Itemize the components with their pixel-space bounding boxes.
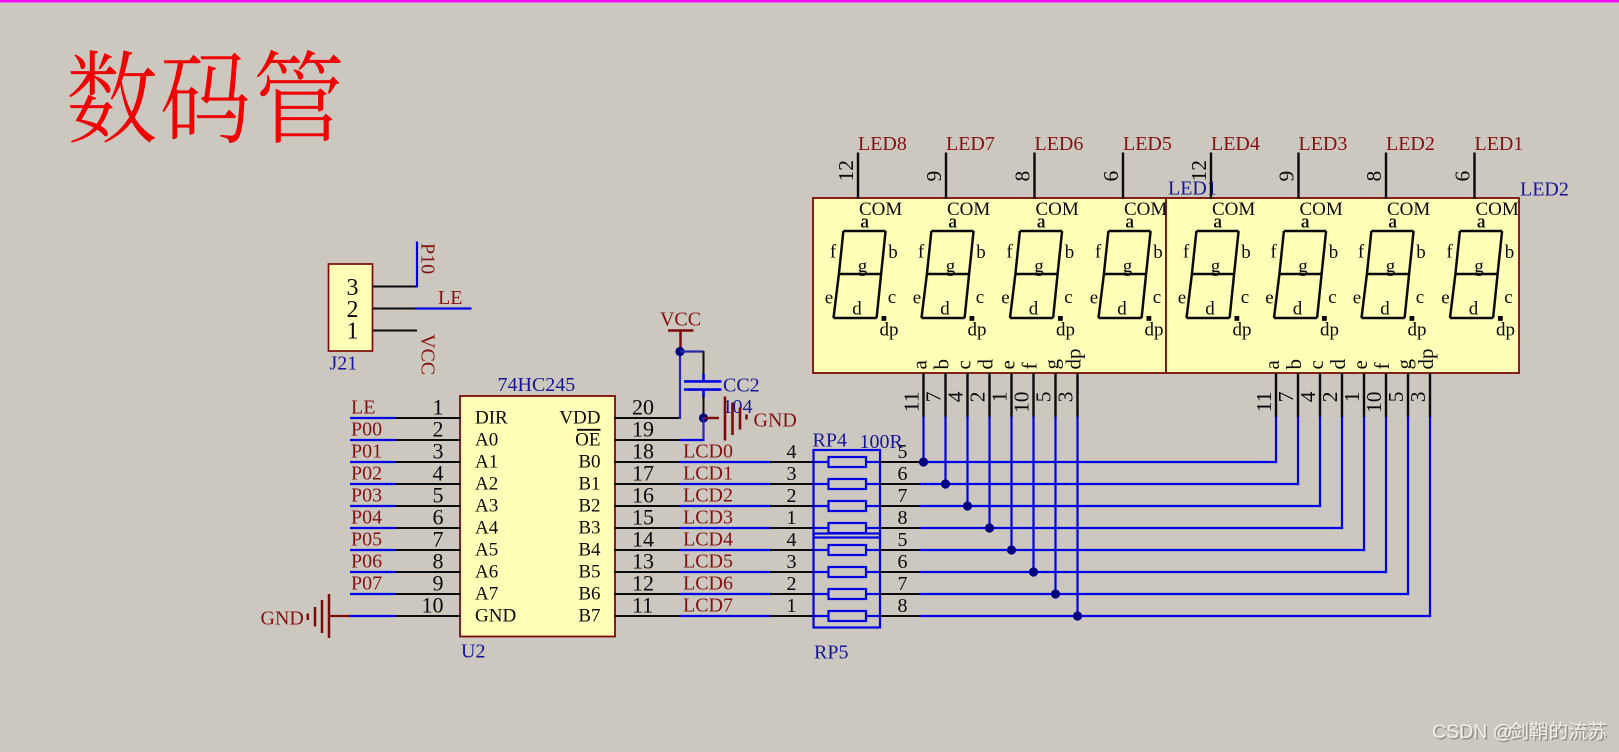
seven-segment digit 2 of LED2 — [1274, 231, 1326, 318]
wire net P03 — [350, 505, 395, 507]
resistor element 1 in RP4 — [814, 457, 881, 467]
wire COM pin LED8 — [857, 153, 859, 200]
svg-text:J21: J21 — [330, 353, 358, 375]
svg-text:d: d — [1029, 299, 1039, 320]
svg-text:f: f — [1370, 363, 1394, 370]
wire junction to ground symbol — [704, 417, 720, 419]
svg-text:OE: OE — [575, 430, 600, 451]
seven-segment digit 3 of LED2 — [1362, 231, 1414, 318]
LED2 segment pin d lead — [1341, 373, 1343, 418]
wire segment row 3 to LED modules — [920, 505, 1321, 507]
wire VCC junction to capacitor — [680, 350, 704, 352]
IC U2 74HC245 body — [460, 396, 615, 637]
svg-text:LCD3: LCD3 — [683, 506, 733, 528]
title text 数码管 (red) — [69, 50, 340, 143]
svg-text:a: a — [860, 212, 869, 233]
svg-text:LCD2: LCD2 — [683, 484, 733, 506]
U2 pin 11 lead (right) — [614, 615, 680, 617]
resistor pack pin lead right row 6 — [879, 571, 921, 573]
svg-text:a: a — [1213, 212, 1222, 233]
U2 pin 2 lead (left) — [394, 439, 461, 441]
connector J21 body — [329, 264, 373, 351]
wire capacitor bottom lead — [703, 396, 705, 414]
U2 pin 16 lead (right) — [614, 505, 680, 507]
resistor pack pin lead left row 4 — [770, 527, 814, 529]
svg-text:g: g — [1040, 359, 1064, 370]
wire net LCD7 — [679, 615, 771, 617]
svg-text:c: c — [1064, 287, 1072, 308]
U2 pin 12 lead (right) — [614, 593, 680, 595]
svg-text:c: c — [952, 360, 976, 369]
LED2 segment pin a lead — [1275, 373, 1277, 418]
svg-text:2: 2 — [966, 392, 990, 403]
svg-text:a: a — [1037, 212, 1046, 233]
svg-text:c: c — [1153, 287, 1161, 308]
svg-text:4: 4 — [787, 529, 797, 551]
svg-text:1: 1 — [787, 595, 797, 617]
wire net LCD2 — [679, 505, 771, 507]
svg-text:B7: B7 — [578, 606, 600, 627]
svg-text:P04: P04 — [351, 507, 382, 529]
svg-text:LED4: LED4 — [1211, 133, 1260, 155]
svg-text:4: 4 — [787, 441, 797, 463]
svg-text:10: 10 — [422, 593, 444, 618]
wire segment row 7 to LED modules — [920, 593, 1409, 595]
svg-text:12: 12 — [1187, 160, 1211, 182]
svg-text:P03: P03 — [351, 485, 382, 507]
svg-text:A0: A0 — [475, 430, 498, 451]
svg-text:b: b — [976, 242, 986, 263]
svg-text:a: a — [1125, 212, 1134, 233]
wire net LCD1 — [679, 483, 771, 485]
svg-text:10: 10 — [1362, 392, 1386, 414]
U2 pin 5 lead (left) — [394, 505, 461, 507]
svg-text:11: 11 — [1252, 392, 1276, 413]
svg-text:RP4: RP4 — [813, 430, 847, 452]
svg-text:7: 7 — [898, 573, 908, 595]
U2 pin 8 lead (left) — [394, 571, 461, 573]
svg-text:b: b — [888, 242, 898, 263]
svg-text:f: f — [1270, 242, 1277, 263]
LED2 segment pin e lead — [1363, 373, 1365, 418]
resistor pack RP4 body — [814, 450, 881, 538]
svg-text:d: d — [852, 299, 862, 320]
wire LED1 e vertical — [1010, 417, 1012, 551]
svg-text:g: g — [946, 256, 956, 277]
svg-text:B6: B6 — [578, 584, 600, 605]
svg-text:e: e — [1178, 288, 1186, 309]
wire net LCD0 — [679, 461, 771, 463]
wire LED2 g vertical — [1407, 417, 1409, 596]
svg-text:LED1: LED1 — [1475, 133, 1524, 155]
U2 pin 4 lead (left) — [394, 483, 461, 485]
resistor pack pin lead right row 3 — [879, 505, 921, 507]
wire LED2 c vertical — [1319, 417, 1321, 508]
svg-text:f: f — [830, 242, 837, 263]
U2 pin 19 lead (right) — [614, 439, 680, 441]
svg-text:6: 6 — [898, 551, 908, 573]
wire LED1 f vertical — [1032, 417, 1034, 573]
svg-text:dp: dp — [1408, 320, 1427, 341]
svg-text:B4: B4 — [578, 540, 601, 561]
svg-text:LCD0: LCD0 — [683, 440, 733, 462]
svg-text:104: 104 — [723, 396, 753, 418]
wire net P06 — [350, 571, 395, 573]
seven-segment digit 3 of LED1 — [1010, 231, 1062, 318]
svg-text:LED5: LED5 — [1123, 133, 1172, 155]
svg-text:5: 5 — [898, 441, 908, 463]
wire OE to ground junction horizontal — [679, 439, 705, 441]
wire at U2 pin 10 — [350, 615, 395, 617]
svg-text:g: g — [1211, 256, 1221, 277]
svg-text:g: g — [1123, 256, 1133, 277]
node junction row 4 — [985, 523, 994, 532]
svg-text:e: e — [1348, 360, 1372, 369]
svg-text:DIR: DIR — [475, 408, 508, 429]
svg-text:e: e — [1001, 288, 1009, 309]
wire LED1 g vertical — [1054, 417, 1056, 595]
svg-text:A2: A2 — [475, 474, 498, 495]
svg-text:c: c — [1241, 287, 1249, 308]
resistor pack pin lead left row 8 — [770, 615, 814, 617]
svg-text:LCD1: LCD1 — [683, 462, 733, 484]
svg-text:g: g — [1298, 256, 1308, 277]
J21 pin 2 lead — [373, 308, 417, 310]
svg-text:b: b — [930, 359, 954, 370]
svg-text:a: a — [1301, 212, 1310, 233]
wire segment row 4 to LED modules — [920, 527, 1343, 529]
svg-text:3: 3 — [1054, 392, 1078, 403]
wire net P00 — [350, 439, 395, 441]
svg-text:VCC: VCC — [417, 334, 439, 375]
wire LED2 d vertical — [1341, 417, 1343, 530]
svg-text:LCD6: LCD6 — [683, 572, 733, 594]
wire COM pin LED1 — [1473, 153, 1475, 200]
svg-text:b: b — [1329, 242, 1339, 263]
svg-text:P10: P10 — [417, 243, 439, 274]
svg-text:dp: dp — [880, 320, 899, 341]
svg-text:A5: A5 — [475, 540, 498, 561]
svg-text:A4: A4 — [475, 518, 499, 539]
wire LED1 dp vertical — [1076, 417, 1078, 617]
svg-text:b: b — [1282, 359, 1306, 370]
svg-text:RP5: RP5 — [814, 642, 848, 664]
wire segment row 6 to LED modules — [920, 571, 1387, 573]
svg-text:a: a — [908, 360, 932, 370]
svg-text:LCD5: LCD5 — [683, 550, 733, 572]
seven-segment digit 4 of LED2 — [1450, 231, 1502, 318]
svg-text:74HC245: 74HC245 — [498, 374, 576, 396]
svg-text:3: 3 — [787, 463, 797, 485]
wire segment row 5 to LED modules — [920, 549, 1365, 551]
svg-text:B5: B5 — [578, 562, 600, 583]
resistor pack pin lead right row 8 — [879, 615, 921, 617]
wire segment row 8 to LED modules — [920, 615, 1431, 617]
svg-text:c: c — [1504, 287, 1512, 308]
svg-text:f: f — [918, 242, 925, 263]
svg-text:c: c — [1416, 287, 1424, 308]
node junction row 7 — [1051, 589, 1060, 598]
svg-text:d: d — [1293, 299, 1303, 320]
svg-text:P02: P02 — [351, 463, 382, 485]
resistor pack pin lead right row 5 — [879, 549, 921, 551]
svg-text:g: g — [1386, 256, 1396, 277]
svg-text:dp: dp — [1414, 349, 1438, 370]
svg-text:g: g — [1474, 256, 1484, 277]
wire segment row 2 to LED modules — [920, 483, 1299, 485]
svg-text:d: d — [940, 299, 950, 320]
svg-text:4: 4 — [944, 391, 968, 402]
svg-text:10: 10 — [1010, 392, 1034, 414]
LED1 segment pin a lead — [922, 373, 924, 418]
svg-text:f: f — [1095, 242, 1102, 263]
svg-text:c: c — [888, 287, 896, 308]
svg-text:A7: A7 — [475, 584, 498, 605]
wire VCC to VDD vertical — [679, 350, 681, 419]
wire net P01 — [350, 461, 395, 463]
node junction row 8 — [1073, 611, 1082, 620]
resistor element 8 in RP5 — [814, 611, 881, 621]
svg-text:dp: dp — [1145, 320, 1164, 341]
svg-text:5: 5 — [1384, 392, 1408, 403]
wire net LCD3 — [679, 527, 771, 529]
wire LED2 f vertical — [1385, 417, 1387, 574]
seven-segment digit 2 of LED1 — [922, 231, 974, 318]
svg-text:1: 1 — [347, 319, 359, 345]
svg-text:7: 7 — [1274, 391, 1298, 402]
svg-text:GND: GND — [475, 606, 516, 627]
wire LED1 d vertical — [988, 417, 990, 529]
svg-text:2: 2 — [787, 573, 797, 595]
svg-text:11: 11 — [632, 593, 653, 618]
LED1 segment pin d lead — [988, 373, 990, 418]
wire COM pin LED7 — [945, 153, 947, 200]
svg-text:LCD7: LCD7 — [683, 594, 733, 616]
J21 pin 3 lead — [373, 286, 418, 288]
U2 pin 6 lead (left) — [394, 527, 461, 529]
svg-text:g: g — [858, 256, 868, 277]
watermark CSDN — [1432, 721, 1514, 745]
wire LED1 a vertical — [922, 417, 924, 463]
U2 pin 20 lead (right) — [614, 417, 680, 419]
U2 pin 1 lead (left) — [394, 417, 461, 419]
svg-text:e: e — [825, 288, 833, 309]
svg-text:b: b — [1416, 242, 1426, 263]
svg-text:d: d — [1117, 299, 1127, 320]
watermark 剑鞘的流苏 — [1512, 723, 1529, 741]
svg-text:5: 5 — [1032, 392, 1056, 403]
svg-text:6: 6 — [1099, 171, 1123, 182]
ground symbol at CC2 — [725, 397, 747, 441]
svg-text:P05: P05 — [351, 529, 382, 551]
svg-text:f: f — [1006, 242, 1013, 263]
svg-text:b: b — [1241, 242, 1251, 263]
svg-text:d: d — [1469, 299, 1479, 320]
wire net P05 — [350, 549, 395, 551]
wire COM pin LED6 — [1033, 153, 1035, 200]
wire LED2 dp vertical — [1429, 417, 1431, 618]
wire net LCD6 — [679, 593, 771, 595]
svg-text:7: 7 — [898, 485, 908, 507]
LED1 segment pin e lead — [1010, 373, 1012, 418]
resistor pack pin lead right row 7 — [879, 593, 921, 595]
svg-text:2: 2 — [787, 485, 797, 507]
svg-text:7: 7 — [922, 391, 946, 402]
seven-segment digit 1 of LED1 — [834, 231, 886, 318]
LED1 segment pin f lead — [1032, 373, 1034, 418]
node junction row 5 — [1007, 545, 1016, 554]
svg-text:e: e — [913, 288, 921, 309]
svg-text:dp: dp — [1062, 349, 1086, 370]
svg-text:2: 2 — [1318, 392, 1342, 403]
svg-text:d: d — [1205, 299, 1215, 320]
svg-text:11: 11 — [900, 392, 924, 413]
LED1 segment pin c lead — [966, 373, 968, 418]
wire OE to ground junction vertical — [702, 417, 704, 441]
svg-text:8: 8 — [898, 507, 908, 529]
svg-text:3: 3 — [787, 551, 797, 573]
resistor pack pin lead left row 2 — [770, 483, 814, 485]
svg-text:VDD: VDD — [559, 408, 600, 429]
wire net P07 — [350, 593, 395, 595]
svg-text:B1: B1 — [578, 474, 600, 495]
resistor pack pin lead left row 7 — [770, 593, 814, 595]
svg-text:e: e — [1090, 288, 1098, 309]
LED2 segment pin c lead — [1319, 373, 1321, 418]
svg-text:d: d — [1326, 359, 1350, 370]
svg-text:LED8: LED8 — [858, 133, 907, 155]
wire net LCD4 — [679, 549, 771, 551]
svg-text:6: 6 — [898, 463, 908, 485]
top magenta border line — [0, 0, 1619, 2]
svg-text:c: c — [1328, 287, 1336, 308]
U2 pin 14 lead (right) — [614, 549, 680, 551]
svg-text:a: a — [1388, 212, 1397, 233]
svg-text:b: b — [1065, 242, 1075, 263]
svg-text:P00: P00 — [351, 419, 382, 441]
wire LED1 b vertical — [944, 417, 946, 485]
svg-text:P01: P01 — [351, 441, 382, 463]
LED2 segment pin dp lead — [1429, 373, 1431, 418]
svg-text:5: 5 — [898, 529, 908, 551]
svg-text:P06: P06 — [351, 551, 382, 573]
capacitor CC2 — [684, 374, 722, 398]
node capacitor-ground junction — [699, 413, 708, 422]
wire capacitor top lead — [703, 351, 705, 376]
wire P10 vertical — [416, 242, 418, 288]
svg-text:B0: B0 — [578, 452, 600, 473]
svg-text:12: 12 — [834, 160, 858, 182]
LED2 segment pin g lead — [1407, 373, 1409, 418]
node junction row 2 — [941, 479, 950, 488]
LED2 segment pin b lead — [1297, 373, 1299, 418]
LED1 segment pin b lead — [944, 373, 946, 418]
resistor element 5 in RP5 — [814, 545, 881, 555]
svg-text:VCC: VCC — [660, 309, 701, 331]
wire net P04 — [350, 527, 395, 529]
svg-text:dp: dp — [968, 320, 987, 341]
svg-text:LED2: LED2 — [1520, 179, 1569, 201]
LED module LED1 body — [813, 198, 1166, 373]
LED2 segment pin f lead — [1385, 373, 1387, 418]
svg-text:LED6: LED6 — [1035, 133, 1084, 155]
svg-text:e: e — [996, 360, 1020, 369]
wire LED1 c vertical — [966, 417, 968, 507]
svg-text:LCD4: LCD4 — [683, 528, 733, 550]
svg-text:e: e — [1441, 288, 1449, 309]
svg-text:e: e — [1353, 288, 1361, 309]
svg-text:a: a — [1260, 360, 1284, 370]
svg-text:B2: B2 — [578, 496, 600, 517]
svg-text:GND: GND — [261, 608, 304, 630]
wire LE from J21 — [415, 307, 472, 309]
svg-text:dp: dp — [1233, 320, 1252, 341]
overline over OE pin name — [577, 429, 601, 431]
resistor pack pin lead right row 4 — [879, 527, 921, 529]
svg-text:c: c — [1304, 360, 1328, 369]
wire COM pin LED4 — [1210, 153, 1212, 200]
resistor pack pin lead right row 1 — [879, 461, 921, 463]
resistor pack pin lead right row 2 — [879, 483, 921, 485]
J21 pin 1 lead — [373, 330, 418, 332]
svg-text:CSDN @: CSDN @ — [1432, 721, 1512, 743]
svg-text:d: d — [974, 359, 998, 370]
resistor element 4 in RP4 — [814, 523, 881, 533]
svg-text:9: 9 — [1275, 171, 1299, 182]
svg-text:dp: dp — [1056, 320, 1075, 341]
svg-text:P07: P07 — [351, 573, 382, 595]
node junction row 6 — [1029, 567, 1038, 576]
U2 pin 15 lead (right) — [614, 527, 680, 529]
svg-text:3: 3 — [1406, 392, 1430, 403]
LED module LED2 body — [1166, 198, 1519, 373]
svg-text:b: b — [1153, 242, 1163, 263]
svg-text:4: 4 — [1296, 391, 1320, 402]
U2 pin 17 lead (right) — [614, 483, 680, 485]
svg-text:f: f — [1183, 242, 1190, 263]
svg-text:1: 1 — [988, 392, 1012, 403]
svg-text:1: 1 — [787, 507, 797, 529]
resistor pack pin lead left row 6 — [770, 571, 814, 573]
svg-text:A6: A6 — [475, 562, 498, 583]
wire LED2 b vertical — [1297, 417, 1299, 486]
svg-text:8: 8 — [898, 595, 908, 617]
resistor element 6 in RP5 — [814, 567, 881, 577]
node VCC junction — [675, 347, 684, 356]
node junction row 3 — [963, 501, 972, 510]
wire COM pin LED5 — [1122, 153, 1124, 200]
U2 pin 3 lead (left) — [394, 461, 461, 463]
LED1 segment pin g lead — [1054, 373, 1056, 418]
U2 pin 10 lead (left) — [394, 615, 461, 617]
svg-text:f: f — [1358, 242, 1365, 263]
wire LED2 a vertical — [1275, 417, 1277, 464]
resistor element 7 in RP5 — [814, 589, 881, 599]
seven-segment digit 4 of LED1 — [1099, 231, 1151, 318]
svg-text:g: g — [1034, 256, 1044, 277]
U2 pin 18 lead (right) — [614, 461, 680, 463]
svg-text:LED3: LED3 — [1299, 133, 1348, 155]
svg-text:b: b — [1505, 242, 1515, 263]
power symbol VCC — [668, 331, 694, 352]
wire COM pin LED2 — [1385, 153, 1387, 200]
U2 pin 9 lead (left) — [394, 593, 461, 595]
wire COM pin LED3 — [1297, 153, 1299, 200]
wire net LE — [350, 417, 395, 419]
svg-text:f: f — [1446, 242, 1453, 263]
node junction row 1 — [919, 457, 928, 466]
svg-text:e: e — [1265, 288, 1273, 309]
